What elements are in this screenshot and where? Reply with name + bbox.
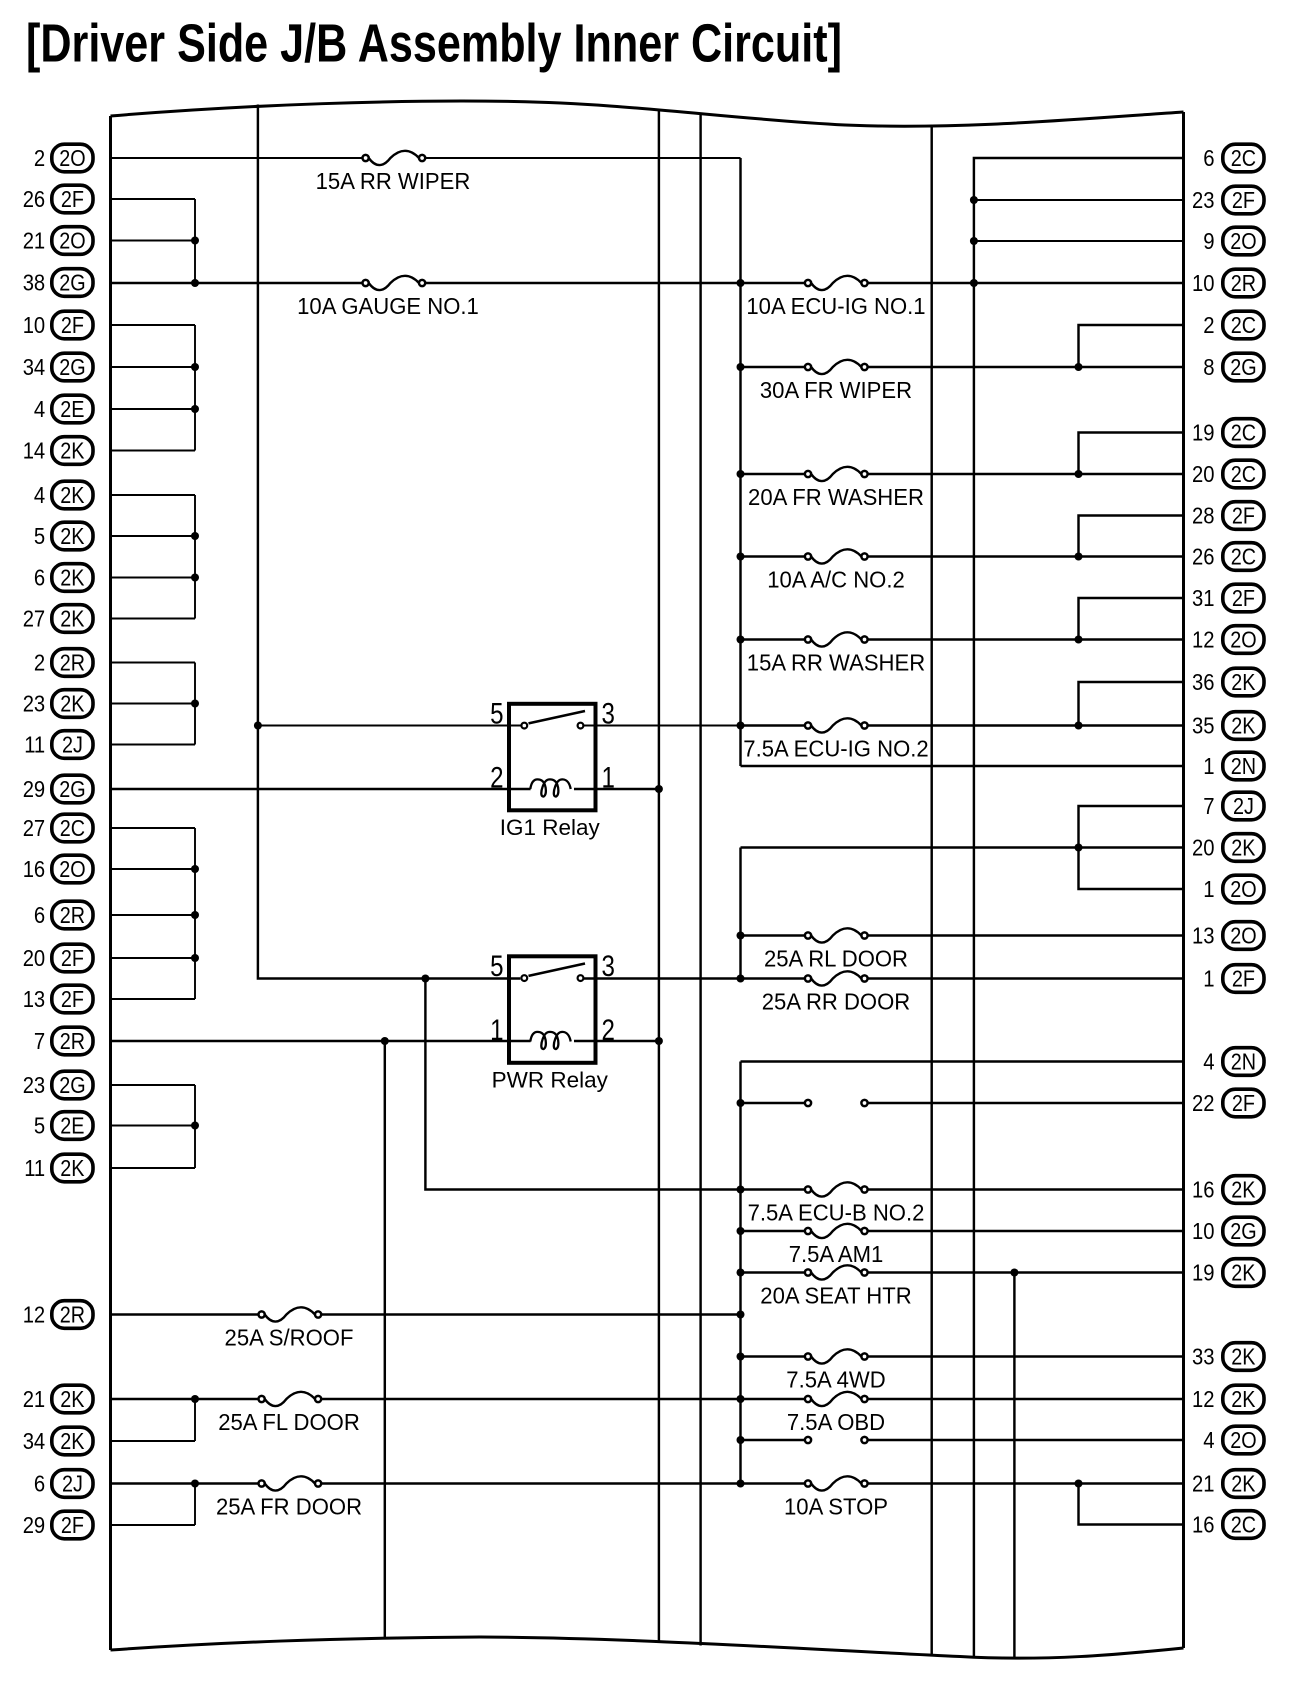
pin 34 2K (left)	[23, 1427, 93, 1455]
wire left pin row y=450.5	[111, 450, 196, 452]
wire PWR relay pin 2 to coil common	[574, 1040, 659, 1042]
wire GAUGE fuse to ECU-IG NO.1 fuse	[425, 282, 805, 284]
svg-text:10A ECU-IG NO.1: 10A ECU-IG NO.1	[746, 293, 925, 319]
svg-text:38: 38	[23, 270, 46, 296]
wire fuse to right border y=556.5	[868, 555, 1184, 557]
vertical wire C from top edge	[930, 126, 932, 1656]
svg-text:35: 35	[1192, 713, 1215, 739]
svg-text:2G: 2G	[59, 776, 85, 802]
bus junction at 4 2O spare row	[737, 1436, 745, 1444]
svg-text:2E: 2E	[60, 396, 84, 422]
group 8 junction	[191, 1480, 199, 1488]
bus junction at A/C NO.2 row	[737, 553, 745, 561]
wire bus to fuse row y=556.5	[741, 555, 805, 557]
svg-text:10: 10	[23, 312, 46, 338]
wire left pin row y=199	[111, 198, 196, 200]
group 3 junction	[191, 574, 199, 582]
bus junction at OBD row	[737, 1395, 745, 1403]
wire FR DOOR fuse to bus	[321, 1482, 805, 1484]
svg-text:34: 34	[23, 1428, 46, 1454]
wire 20 2K row from bus corner	[741, 846, 1184, 848]
svg-text:2: 2	[34, 145, 45, 171]
pin 5 2E (left)	[34, 1112, 93, 1140]
pin 12 2O (right)	[1192, 626, 1264, 654]
fuse 10A ECU-IG NO.1	[805, 276, 868, 290]
left pin group bracket 6	[194, 1085, 196, 1168]
svg-text:7.5A ECU-IG NO.2: 7.5A ECU-IG NO.2	[743, 736, 928, 762]
wire left pin row y=915	[111, 914, 196, 916]
svg-text:2K: 2K	[60, 523, 85, 549]
svg-text:2O: 2O	[1230, 228, 1256, 254]
svg-text:4: 4	[1203, 1427, 1214, 1453]
junction E at SEAT HTR row	[1010, 1269, 1018, 1277]
pin 9 2O (right)	[1203, 227, 1264, 255]
pin 19 2C (right)	[1192, 419, 1264, 447]
wire spare socket to pin 4 2O	[868, 1439, 1184, 1441]
svg-text:2G: 2G	[1230, 1218, 1256, 1244]
wire left pin row y=1125.5	[111, 1125, 196, 1127]
svg-text:7: 7	[34, 1028, 45, 1054]
group 7 junction	[191, 1395, 199, 1403]
wire 25A FL DOOR row from left border	[111, 1398, 259, 1400]
spare fuse socket 4 2O row	[805, 1437, 868, 1443]
group 2 junction	[191, 405, 199, 413]
svg-text:3: 3	[602, 698, 615, 731]
svg-text:1: 1	[1203, 966, 1214, 992]
svg-text:2K: 2K	[60, 691, 85, 717]
pin 12 2K (right)	[1192, 1385, 1264, 1413]
pin 1 2O (right)	[1203, 875, 1264, 903]
wire 38 2G row to 10A GAUGE NO.1 fuse	[111, 282, 363, 284]
svg-text:29: 29	[23, 776, 46, 802]
wire left pin row y=1085	[111, 1084, 196, 1086]
svg-text:2R: 2R	[60, 1028, 85, 1054]
pin 29 2F (left)	[23, 1511, 93, 1539]
wire left pin row y=240.5	[111, 240, 196, 242]
svg-text:27: 27	[23, 606, 46, 632]
svg-text:2O: 2O	[1230, 923, 1256, 949]
left pin group bracket 7	[194, 1399, 196, 1441]
svg-text:2K: 2K	[1231, 1260, 1256, 1286]
wire left pin row y=869	[111, 868, 196, 870]
wire 2 2O row to 15A RR WIPER fuse	[111, 157, 363, 159]
svg-text:25A FR DOOR: 25A FR DOOR	[216, 1494, 362, 1520]
svg-text:4: 4	[34, 396, 45, 422]
svg-text:21: 21	[23, 228, 46, 254]
svg-text:2G: 2G	[1230, 354, 1256, 380]
wire left pin row y=495	[111, 494, 196, 496]
wire bus to fuse row y=1189.5	[741, 1188, 805, 1190]
svg-text:12: 12	[1192, 1386, 1215, 1412]
svg-text:16: 16	[1192, 1512, 1215, 1538]
group 3 junction	[191, 532, 199, 540]
svg-text:11: 11	[24, 1155, 45, 1181]
svg-text:23: 23	[23, 1072, 46, 1098]
svg-text:36: 36	[1192, 669, 1215, 695]
pin 6 2C (right)	[1203, 144, 1264, 172]
fuse 7.5A ECU-IG NO.2	[805, 718, 868, 732]
wire ECU-IG NO.1 fuse to pin 10 2R	[868, 282, 1184, 284]
hook wire from pin row y=515.5	[1079, 516, 1184, 557]
wire left pin row y=744.5	[111, 744, 196, 746]
svg-text:2R: 2R	[60, 902, 85, 928]
svg-text:2F: 2F	[1232, 187, 1255, 213]
pin 21 2K (left)	[23, 1385, 93, 1413]
svg-text:2: 2	[490, 762, 503, 795]
wire bus to fuse row y=1231	[741, 1230, 805, 1232]
pin 27 2K (left)	[23, 605, 93, 633]
bus junction at 22 2F spare row	[737, 1099, 745, 1107]
junction IG1 coil at vertical wire A	[655, 785, 663, 793]
svg-text:2R: 2R	[60, 650, 85, 676]
wire left pin row y=409	[111, 408, 196, 410]
svg-text:4: 4	[34, 482, 45, 508]
wire RR WIPER fuse to bus corner	[425, 157, 740, 159]
svg-text:25A RL DOOR: 25A RL DOOR	[764, 946, 908, 972]
svg-text:1: 1	[602, 762, 615, 795]
pin 1 2F (right)	[1203, 965, 1264, 993]
wire 9 2O row	[974, 240, 1184, 242]
svg-text:PWR Relay: PWR Relay	[492, 1067, 609, 1092]
svg-text:7.5A 4WD: 7.5A 4WD	[786, 1367, 885, 1393]
svg-text:2R: 2R	[1231, 270, 1256, 296]
pin 19 2K (right)	[1192, 1259, 1264, 1287]
svg-text:3: 3	[602, 950, 615, 983]
svg-text:2E: 2E	[60, 1113, 84, 1139]
svg-text:2O: 2O	[59, 145, 85, 171]
vertical wire from 7 2R row to bottom edge	[384, 1041, 386, 1640]
pin 16 2O (left)	[23, 855, 93, 883]
wire spare socket to pin 22 2F	[868, 1102, 1184, 1104]
wire left pin row y=618.5	[111, 618, 196, 620]
svg-text:10: 10	[1192, 270, 1215, 296]
wire bus to fuse row y=725.5	[741, 724, 805, 726]
svg-text:25A RR DOOR: 25A RR DOOR	[762, 989, 911, 1015]
svg-text:2K: 2K	[1231, 669, 1256, 695]
wire left pin row y=1525	[111, 1524, 196, 1526]
fuse bus segment 1 (RR WIPER feed)	[739, 158, 741, 766]
junction at 7 2R row	[381, 1037, 389, 1045]
pin 6 2R (left)	[34, 901, 93, 929]
pin 4 2K (left)	[34, 481, 93, 509]
hook wire from pin row y=325	[1079, 325, 1184, 367]
svg-text:1: 1	[1203, 753, 1214, 779]
fuse 20A FR WASHER	[805, 467, 868, 481]
pin 7 2J (right)	[1203, 792, 1264, 820]
hook wire 21 2K to 16 2C	[1079, 1484, 1184, 1525]
bus junction at FR WASHER row	[737, 470, 745, 478]
svg-text:2K: 2K	[1231, 713, 1256, 739]
J/B box right border	[1182, 112, 1185, 1648]
pin 20 2C (right)	[1192, 460, 1264, 488]
svg-text:2K: 2K	[1231, 1386, 1256, 1412]
pin 38 2G (left)	[23, 269, 93, 297]
junction D at 23 2F row	[970, 196, 978, 204]
svg-text:19: 19	[1192, 1260, 1215, 1286]
bus junction at RR WASHER row	[737, 636, 745, 644]
svg-text:13: 13	[1192, 923, 1215, 949]
hook wire from pin row y=432.5	[1079, 433, 1184, 475]
svg-text:2J: 2J	[1233, 793, 1254, 819]
wire left pin row y=703.5	[111, 703, 196, 705]
wire 25A FR DOOR row from left border	[111, 1482, 259, 1484]
wire bus to 25A RL DOOR fuse	[741, 934, 805, 936]
svg-text:2F: 2F	[1232, 585, 1255, 611]
branch wire from PWR pin 5 row down to ECU-B NO.2 row	[425, 979, 740, 1190]
junction D at 9 2O row	[970, 237, 978, 245]
hook junction	[1075, 363, 1083, 371]
pin 10 2R (right)	[1192, 269, 1264, 297]
svg-text:2K: 2K	[60, 1155, 85, 1181]
wire OBD fuse to pin 12 2K	[868, 1398, 1184, 1400]
fuse 20A SEAT HTR	[805, 1265, 868, 1279]
pin 28 2F (right)	[1192, 502, 1264, 530]
svg-text:5: 5	[490, 950, 503, 983]
pin 26 2F (left)	[23, 185, 93, 213]
left pin group bracket 4	[194, 663, 196, 745]
vertical wire A (coil common)	[658, 109, 660, 1643]
wire 12 2R row to 25A S/ROOF fuse	[111, 1313, 259, 1315]
wire bus to fuse row y=367	[741, 366, 805, 368]
wire left pin row y=1441	[111, 1440, 196, 1442]
group 5 junction	[191, 865, 199, 873]
left pin group bracket 3	[194, 495, 196, 619]
pin 16 2K (right)	[1192, 1176, 1264, 1204]
wire S/ROOF fuse to bus	[321, 1313, 740, 1315]
svg-text:27: 27	[23, 815, 46, 841]
svg-text:2K: 2K	[1231, 1177, 1256, 1203]
fuse 25A RR DOOR	[805, 971, 868, 985]
svg-text:5: 5	[34, 523, 45, 549]
junction on vertical wire at IG1 pin 5 row	[254, 722, 262, 730]
wire IG1 relay pin 1 to coil common	[574, 788, 659, 790]
svg-text:9: 9	[1203, 228, 1214, 254]
bus junction at ECU-IG NO.2 row	[737, 722, 745, 730]
svg-text:5: 5	[34, 1113, 45, 1139]
spare fuse socket 22 2F row	[805, 1100, 868, 1106]
svg-text:30A FR WIPER: 30A FR WIPER	[760, 377, 912, 403]
wire left pin row y=828	[111, 827, 196, 829]
bus junction at STOP row	[737, 1480, 745, 1488]
svg-text:25A S/ROOF: 25A S/ROOF	[225, 1325, 354, 1351]
svg-text:6: 6	[34, 902, 45, 928]
svg-text:2K: 2K	[60, 482, 85, 508]
pin 13 2O (right)	[1192, 922, 1264, 950]
wire fuse to right border y=725.5	[868, 724, 1184, 726]
svg-text:29: 29	[23, 1512, 46, 1538]
svg-text:12: 12	[23, 1302, 46, 1328]
svg-text:2: 2	[1203, 312, 1214, 338]
group 5 junction	[191, 911, 199, 919]
fuse 7.5A AM1	[805, 1224, 868, 1238]
svg-text:2F: 2F	[61, 986, 84, 1012]
svg-text:2F: 2F	[61, 1512, 84, 1538]
svg-text:2J: 2J	[62, 1471, 83, 1497]
wire fuse to right border y=367	[868, 366, 1184, 368]
svg-text:[Driver Side J/B Assembly Inne: [Driver Side J/B Assembly Inner Circuit]	[26, 14, 842, 74]
wire bus to fuse row y=1272.5	[741, 1271, 805, 1273]
svg-text:33: 33	[1192, 1344, 1215, 1370]
pin 4 2N (right)	[1203, 1048, 1264, 1076]
svg-text:5: 5	[490, 698, 503, 731]
bus junction at RR DOOR row	[737, 975, 745, 983]
svg-text:2F: 2F	[61, 945, 84, 971]
svg-text:2O: 2O	[1230, 876, 1256, 902]
svg-text:2F: 2F	[61, 312, 84, 338]
svg-text:28: 28	[1192, 503, 1215, 529]
svg-text:12: 12	[1192, 627, 1215, 653]
bus junction at SEAT HTR row	[737, 1269, 745, 1277]
svg-text:2: 2	[602, 1014, 615, 1047]
wire 7 2R row to PWR relay pin 1	[111, 1040, 531, 1042]
svg-text:2N: 2N	[1231, 1049, 1256, 1075]
svg-text:2K: 2K	[60, 438, 85, 464]
svg-text:2O: 2O	[59, 228, 85, 254]
J/B box wavy bottom edge	[111, 1637, 1184, 1658]
pin 23 2F (right)	[1192, 186, 1264, 214]
svg-text:2C: 2C	[1231, 420, 1256, 446]
svg-text:6: 6	[34, 1471, 45, 1497]
pin 4 2O (right)	[1203, 1426, 1264, 1454]
pin 23 2K (left)	[23, 690, 93, 718]
wire fuse to right border y=474	[868, 473, 1184, 475]
svg-text:2C: 2C	[1231, 1512, 1256, 1538]
fuse 15A RR WIPER	[363, 151, 426, 165]
wire FL DOOR fuse to bus	[321, 1398, 805, 1400]
svg-text:2K: 2K	[60, 1386, 85, 1412]
fuse 15A RR WASHER	[805, 632, 868, 646]
fuse 25A FR DOOR	[259, 1476, 322, 1490]
group 5 junction	[191, 954, 199, 962]
svg-text:2G: 2G	[59, 270, 85, 296]
pin 2 2R (left)	[34, 649, 93, 677]
bus junction at ECU-IG NO.1 row	[737, 279, 745, 287]
fuse 7.5A 4WD	[805, 1349, 868, 1363]
svg-text:2C: 2C	[1231, 145, 1256, 171]
svg-text:2J: 2J	[62, 732, 83, 758]
hook junction	[1075, 470, 1083, 478]
relay PWR	[490, 950, 615, 1092]
wire left pin row y=1168	[111, 1167, 196, 1169]
junction at PWR pin 5 row	[421, 975, 429, 983]
wire fuse to right border y=1272.5	[868, 1271, 1184, 1273]
svg-text:19: 19	[1192, 420, 1215, 446]
pin 35 2K (right)	[1192, 712, 1264, 740]
svg-text:2F: 2F	[61, 186, 84, 212]
svg-text:10A STOP: 10A STOP	[784, 1494, 888, 1520]
pin 2 2O (left)	[34, 144, 93, 172]
pin 12 2R (left)	[23, 1301, 93, 1329]
fuse 30A FR WIPER	[805, 360, 868, 374]
svg-text:2C: 2C	[60, 815, 85, 841]
svg-text:10A GAUGE NO.1: 10A GAUGE NO.1	[297, 293, 479, 319]
svg-text:1: 1	[490, 1014, 503, 1047]
svg-text:20A FR WASHER: 20A FR WASHER	[748, 484, 924, 510]
wire left pin row y=958	[111, 957, 196, 959]
fuse 7.5A ECU-B NO.2	[805, 1182, 868, 1196]
bus junction at 4WD row	[737, 1353, 745, 1361]
pin 33 2K (right)	[1192, 1343, 1264, 1371]
svg-text:2K: 2K	[1231, 1344, 1256, 1370]
svg-text:13: 13	[23, 986, 46, 1012]
fuse 10A GAUGE NO.1	[363, 276, 426, 290]
left pin group bracket 1	[194, 199, 196, 283]
wire bus to 22 2F spare socket	[741, 1102, 805, 1104]
wire fuse to right border y=639.5	[868, 638, 1184, 640]
wire bus to fuse row y=639.5	[741, 638, 805, 640]
pin 22 2F (right)	[1192, 1089, 1264, 1117]
fuse 10A STOP	[805, 1476, 868, 1490]
left pin group bracket 2	[194, 325, 196, 451]
pin 31 2F (right)	[1192, 584, 1264, 612]
svg-text:31: 31	[1192, 585, 1215, 611]
group 1 junction	[191, 237, 199, 245]
svg-text:2R: 2R	[60, 1302, 85, 1328]
svg-text:25A FL DOOR: 25A FL DOOR	[218, 1409, 360, 1435]
wire fuse to right border y=1356.5	[868, 1355, 1184, 1357]
pin 16 2C (right)	[1192, 1511, 1264, 1539]
fuse 10A A/C NO.2	[805, 549, 868, 563]
svg-text:2F: 2F	[1232, 1090, 1255, 1116]
svg-text:2: 2	[34, 650, 45, 676]
pin 10 2F (left)	[23, 311, 93, 339]
svg-text:2K: 2K	[1231, 1471, 1256, 1497]
svg-text:20A SEAT HTR: 20A SEAT HTR	[760, 1283, 911, 1309]
wire 1 2N row from bus bottom corner	[741, 765, 1184, 767]
wire x258 to IG1 relay pin 5	[258, 725, 521, 727]
pin 6 2J (left)	[34, 1470, 93, 1498]
svg-text:15A RR WASHER: 15A RR WASHER	[747, 650, 925, 676]
pin 20 2K (right)	[1192, 834, 1264, 862]
fuse 25A RL DOOR	[805, 928, 868, 942]
hook junction at 20 2K row	[1075, 844, 1083, 852]
pin 23 2G (left)	[23, 1071, 93, 1099]
svg-text:2O: 2O	[59, 856, 85, 882]
svg-text:7.5A AM1: 7.5A AM1	[789, 1241, 884, 1267]
pin 14 2K (left)	[23, 437, 93, 465]
pin 26 2C (right)	[1192, 543, 1264, 571]
vertical wire from top edge to PWR relay pin 5 branch	[258, 105, 520, 979]
svg-text:20: 20	[1192, 835, 1215, 861]
hook wire from pin row y=682	[1079, 682, 1184, 726]
pin 7 2R (left)	[34, 1027, 93, 1055]
svg-text:26: 26	[1192, 544, 1215, 570]
svg-text:21: 21	[23, 1386, 46, 1412]
svg-text:23: 23	[23, 691, 46, 717]
svg-text:16: 16	[23, 856, 46, 882]
fuse 7.5A OBD	[805, 1392, 868, 1406]
svg-text:14: 14	[23, 438, 46, 464]
relay IG1	[490, 698, 615, 840]
wire left pin row y=325	[111, 324, 196, 326]
hook junction at 10A STOP row	[1075, 1480, 1083, 1488]
svg-text:21: 21	[1192, 1471, 1215, 1497]
pin 21 2K (right)	[1192, 1470, 1264, 1498]
svg-text:11: 11	[24, 732, 45, 758]
pin 13 2F (left)	[23, 985, 93, 1013]
left pin group bracket 8	[194, 1484, 196, 1526]
wire RR DOOR fuse to pin 1 2F	[868, 977, 1184, 979]
bus junction at RL DOOR row	[737, 932, 745, 940]
svg-text:2K: 2K	[1231, 835, 1256, 861]
svg-text:IG1 Relay: IG1 Relay	[500, 815, 601, 840]
pin 4 2E (left)	[34, 395, 93, 423]
fuse bus segment 2 (PWR relay output)	[739, 848, 741, 979]
left pin group bracket 5	[194, 828, 196, 999]
svg-text:2G: 2G	[59, 354, 85, 380]
wire fuse to right border y=1231	[868, 1230, 1184, 1232]
pin 10 2G (right)	[1192, 1217, 1264, 1245]
